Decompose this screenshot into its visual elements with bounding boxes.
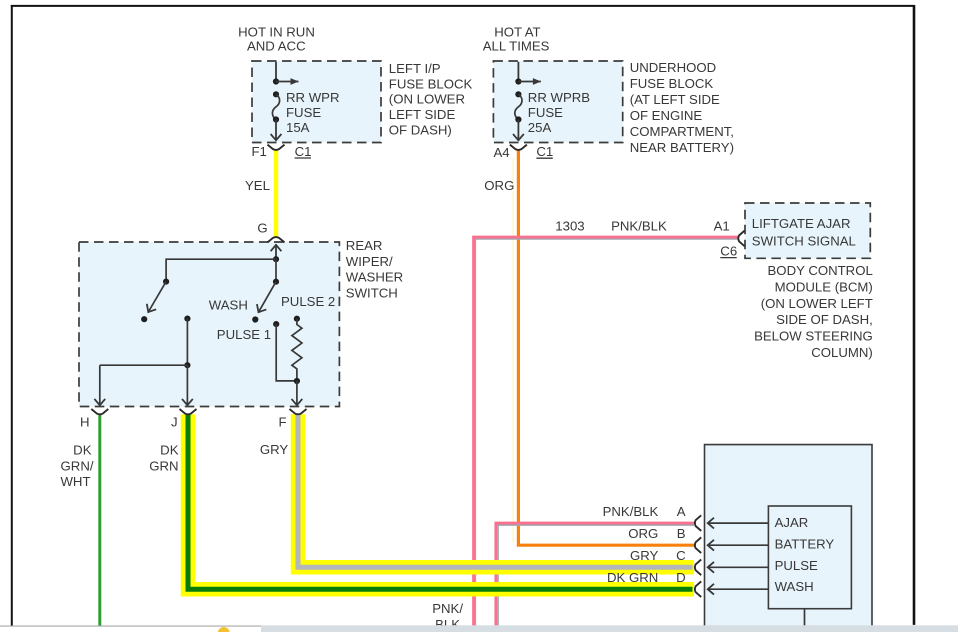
svg-text:SWITCH SIGNAL: SWITCH SIGNAL	[752, 233, 856, 248]
svg-text:15A: 15A	[286, 120, 310, 135]
svg-text:C6: C6	[720, 243, 737, 258]
svg-text:AJAR: AJAR	[775, 515, 809, 530]
left switch arm	[148, 282, 166, 312]
F pin arrow	[296, 381, 298, 405]
svg-text:BATTERY: BATTERY	[775, 536, 835, 551]
svg-text:LIFTGATE AJAR: LIFTGATE AJAR	[752, 216, 851, 231]
BCM arrow BATTERY	[708, 544, 769, 546]
PULSE 1 contact node	[273, 321, 279, 327]
svg-text:25A: 25A	[528, 120, 552, 135]
wire junction to H	[100, 364, 188, 366]
page frame left border	[11, 5, 13, 626]
svg-text:FUSE: FUSE	[528, 105, 563, 120]
connector F1/C1	[268, 145, 285, 150]
svg-text:NEAR BATTERY): NEAR BATTERY)	[630, 140, 734, 155]
connector pin D	[695, 581, 701, 597]
svg-text:RR WPRB: RR WPRB	[528, 90, 590, 105]
svg-text:SIDE OF DASH,: SIDE OF DASH,	[776, 312, 873, 327]
BCM arrow AJAR	[708, 522, 769, 524]
feed arrow to other circuits	[518, 81, 541, 83]
svg-text:OF DASH): OF DASH)	[389, 123, 452, 138]
svg-text:C1: C1	[536, 144, 553, 159]
svg-text:REAR: REAR	[346, 238, 383, 253]
svg-text:H: H	[80, 414, 90, 429]
wire YEL highlighted	[274, 149, 278, 237]
connector A4/C1	[510, 145, 527, 150]
svg-text:DK: DK	[160, 443, 179, 458]
svg-text:UNDERHOOD: UNDERHOOD	[630, 60, 716, 75]
svg-text:BODY CONTROL: BODY CONTROL	[768, 263, 873, 278]
svg-text:COLUMN): COLUMN)	[811, 345, 873, 360]
svg-text:PNK/BLK: PNK/BLK	[603, 504, 659, 519]
wire DK GRN core	[188, 414, 693, 589]
feed arrow to other circuits	[276, 81, 299, 83]
svg-text:ORG: ORG	[628, 526, 658, 541]
svg-text:C: C	[676, 548, 686, 563]
left pivot node	[163, 279, 169, 285]
wash contact node	[252, 316, 258, 322]
fuse RR WPRB output arrow	[517, 120, 519, 141]
fuse RR WPR squiggle	[272, 94, 279, 119]
wire J contact down	[186, 319, 188, 366]
left contact node	[141, 316, 147, 322]
liftgate ajar switch signal box	[745, 203, 870, 258]
svg-text:FUSE BLOCK: FUSE BLOCK	[630, 76, 714, 91]
wire PNK/BLK row A	[496, 523, 694, 626]
page frame top border	[11, 5, 915, 7]
svg-text:DK GRN: DK GRN	[607, 570, 658, 585]
svg-text:GRN/: GRN/	[61, 458, 94, 473]
fuse RR WPRB element top node	[515, 91, 521, 97]
svg-text:BELOW STEERING: BELOW STEERING	[754, 329, 873, 344]
BCM outer box	[705, 445, 873, 632]
switch entry arrow up	[275, 245, 277, 259]
svg-text:C1: C1	[295, 144, 312, 159]
wire PNK/BLK 1303	[474, 237, 739, 626]
svg-text:FUSE BLOCK: FUSE BLOCK	[389, 76, 473, 91]
node: feed junction	[515, 78, 521, 84]
wire GRY yellow highlight	[298, 414, 694, 567]
resistor	[292, 319, 302, 381]
svg-text:D: D	[676, 570, 686, 585]
svg-text:FUSE: FUSE	[286, 105, 321, 120]
svg-text:WHT: WHT	[60, 474, 90, 489]
svg-text:A1: A1	[714, 219, 730, 234]
small yellow icon in strip	[218, 627, 230, 632]
BCM inner box bottom lead	[804, 609, 806, 626]
J contact node	[184, 316, 190, 322]
connector pin A	[695, 515, 701, 531]
PULSE 2 contact node	[294, 316, 300, 322]
wire GRY core	[298, 414, 693, 567]
svg-text:A: A	[677, 504, 686, 519]
svg-text:J: J	[171, 414, 178, 429]
svg-text:PNK/: PNK/	[432, 601, 463, 616]
junction node F	[294, 378, 300, 384]
svg-text:B: B	[677, 526, 686, 541]
wire ORG	[518, 150, 694, 545]
svg-text:WASH: WASH	[209, 298, 248, 313]
wire to left pivot	[166, 259, 276, 280]
svg-text:WASHER: WASHER	[346, 270, 403, 285]
svg-text:WIPER/: WIPER/	[346, 254, 393, 269]
svg-text:ALL TIMES: ALL TIMES	[483, 39, 550, 54]
fuse RR WPRB A4 entry wire	[517, 62, 519, 81]
wire DK GRN/WHT	[98, 414, 101, 626]
svg-text:(ON LOWER LEFT: (ON LOWER LEFT	[761, 296, 873, 311]
svg-text:LEFT SIDE: LEFT SIDE	[389, 107, 456, 122]
svg-text:MODULE (BCM): MODULE (BCM)	[775, 279, 873, 294]
BCM arrow WASH	[708, 588, 769, 590]
fuse RR WPR output arrow	[275, 120, 277, 141]
rear wiper/washer switch box	[79, 242, 339, 407]
fuse RR WPR element bottom node	[273, 116, 279, 122]
svg-text:PULSE: PULSE	[775, 558, 818, 573]
window strip below diagram	[0, 627, 261, 632]
fuse RR WPRB element bottom node	[515, 116, 521, 122]
H pin arrow	[99, 365, 101, 405]
svg-text:ORG: ORG	[484, 178, 514, 193]
svg-text:HOT IN RUN: HOT IN RUN	[238, 24, 315, 39]
page frame right border	[913, 5, 916, 625]
svg-text:1303: 1303	[555, 219, 584, 234]
connector pin B	[695, 537, 701, 553]
connector pin C	[695, 560, 701, 576]
node: feed junction	[273, 78, 279, 84]
svg-text:(ON LOWER: (ON LOWER	[389, 92, 465, 107]
fuse RR WPRB squiggle	[515, 94, 522, 119]
fuse RR WPR F1 entry wire	[275, 62, 277, 81]
svg-text:GRY: GRY	[260, 442, 289, 457]
node switch feed	[273, 256, 279, 262]
svg-text:F1: F1	[252, 144, 267, 159]
connector J	[180, 409, 197, 414]
wash switch arm	[259, 282, 277, 313]
wire PNK/BLK 1303 shadow	[474, 239, 739, 626]
svg-text:PNK/BLK: PNK/BLK	[611, 219, 667, 234]
svg-text:OF ENGINE: OF ENGINE	[630, 108, 703, 123]
BCM arrow PULSE	[708, 566, 769, 568]
svg-text:HOT AT: HOT AT	[494, 24, 540, 39]
svg-text:COMPARTMENT,: COMPARTMENT,	[630, 124, 734, 139]
wire DK GRN yellow highlight	[188, 414, 694, 589]
connector H	[91, 409, 108, 414]
svg-text:A4: A4	[494, 145, 510, 160]
BCM inner box	[768, 506, 851, 609]
wire pulse1 to resistor bottom	[276, 324, 297, 381]
svg-text:AND ACC: AND ACC	[247, 39, 306, 54]
svg-text:F: F	[279, 414, 287, 429]
connector F	[290, 409, 307, 414]
junction node J/H	[184, 362, 190, 368]
wire to wash pivot	[275, 259, 277, 280]
fuse block box (left I/P)	[252, 61, 381, 143]
faint highlight stripe	[512, 158, 514, 543]
connector C6	[738, 231, 744, 247]
svg-text:LEFT I/P: LEFT I/P	[389, 61, 441, 76]
wash pivot node	[273, 279, 279, 285]
svg-text:(AT LEFT SIDE: (AT LEFT SIDE	[630, 92, 720, 107]
connector G	[268, 237, 285, 242]
wire PNK/BLK row A shadow	[497, 525, 695, 626]
fuse RR WPR element top node	[273, 91, 279, 97]
svg-text:GRN: GRN	[149, 458, 178, 473]
svg-text:WASH: WASH	[775, 579, 814, 594]
svg-text:GRY: GRY	[630, 548, 659, 563]
svg-text:DK: DK	[73, 443, 92, 458]
J pin arrow	[186, 365, 188, 405]
svg-text:SWITCH: SWITCH	[346, 286, 398, 301]
svg-text:YEL: YEL	[245, 178, 270, 193]
gray band bottom right	[261, 625, 958, 632]
fuse block box (underhood)	[493, 61, 622, 143]
svg-text:PULSE 2: PULSE 2	[281, 294, 335, 309]
svg-text:G: G	[257, 221, 267, 236]
svg-text:PULSE 1: PULSE 1	[217, 327, 271, 342]
svg-text:RR WPR: RR WPR	[286, 90, 339, 105]
